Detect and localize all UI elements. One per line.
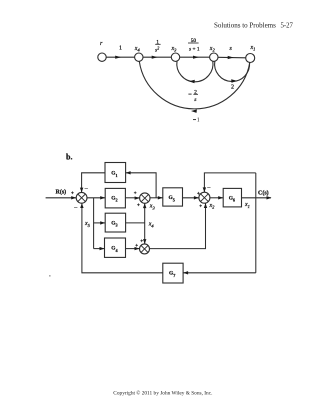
wire x2 to x1 (218, 56, 246, 59)
node x4 (135, 53, 143, 61)
wire S2 to G6 (210, 197, 223, 199)
arrowhead on arc x2 to x1 (pointing right) (231, 79, 237, 83)
wire top feedback to S2 top (204, 173, 255, 192)
wire tap to G4 input (94, 248, 105, 250)
arrowhead into G2 (100, 196, 105, 199)
wire x4 vertical from S3 bottom to S4 top (144, 203, 146, 244)
svg-text:Solutions to Problems: Solutions to Problems (214, 22, 276, 30)
branch gain label -1 (193, 119, 196, 121)
arc branch x1 to x4, gain -1 (139, 61, 250, 108)
arrowhead into G5 (158, 196, 163, 199)
X inside summing junction S4 (141, 245, 148, 252)
arc branch x2 to x1, gain 2 (215, 61, 250, 81)
svg-text:+: + (140, 240, 143, 245)
wire G5 to S2 (183, 197, 199, 199)
X inside summing junction S2 (201, 194, 209, 202)
svg-text:1: 1 (119, 46, 122, 52)
stray print speck (49, 275, 51, 277)
block G6 (223, 188, 241, 207)
summing junction S1 (76, 192, 87, 203)
svg-text:C(s): C(s) (258, 190, 269, 197)
svg-text:+: + (197, 192, 200, 197)
node x2 (210, 53, 218, 61)
X inside summing junction S1 (78, 194, 86, 202)
svg-text:x5: x5 (84, 221, 91, 228)
summing junction S3 (140, 193, 150, 203)
block G1 (105, 163, 126, 183)
svg-text:+: + (71, 191, 74, 196)
svg-text:x1: x1 (250, 45, 256, 52)
branch gain label -2/s (fraction) (188, 93, 191, 95)
wire R(s) input to S1 (46, 197, 77, 199)
wire G2 to S3 (125, 197, 139, 199)
arrowhead r to x4 (115, 56, 121, 59)
svg-text:x1: x1 (244, 202, 250, 209)
svg-text:x4: x4 (134, 46, 141, 53)
wire tap to G3 input (94, 222, 106, 224)
arrowhead x4 to x3 (152, 56, 158, 59)
svg-text:+: + (137, 204, 140, 209)
svg-text:5-27: 5-27 (281, 23, 294, 30)
arrowhead x2 to x1 (228, 56, 234, 59)
arrowhead into S3 left (135, 196, 140, 199)
X inside summing junction S3 (141, 194, 148, 201)
wire S4 output to S2 bottom (150, 203, 206, 248)
block G2 (105, 188, 125, 208)
arrowhead C(s) output (267, 196, 272, 199)
arrowhead into G1 right (feedback) (126, 171, 131, 174)
node x3 (171, 53, 179, 61)
block G7 (163, 263, 183, 283)
arrowhead into S4 top (143, 239, 146, 244)
block G5 (163, 188, 183, 206)
svg-text:x2: x2 (209, 46, 216, 53)
arrowhead into G3 (100, 221, 105, 224)
arrowhead into S1 bottom (80, 203, 83, 208)
arrowhead into S2 left (194, 196, 199, 199)
arrowhead into S2 bottom (204, 203, 207, 208)
svg-text:x3: x3 (149, 204, 156, 211)
arrowhead into S2 top (203, 187, 206, 192)
arrowhead into S1 top (80, 188, 83, 193)
arc branch x2 to x3, gain -2/s (177, 61, 213, 82)
wire G1 output to S1 top (82, 173, 105, 193)
svg-text:x4: x4 (148, 222, 155, 229)
summing junction S2 (199, 192, 210, 203)
node r (98, 53, 106, 61)
wire feedback vertical at right from top loop to G7 loop (255, 173, 257, 273)
svg-text:b.: b. (66, 152, 72, 161)
svg-text:2: 2 (231, 85, 234, 91)
arrowhead into G4 (100, 247, 105, 250)
arrowhead into G6 (218, 196, 223, 199)
wire x4 to x3 (143, 56, 171, 58)
arrowhead into G7 right (183, 271, 188, 274)
svg-text:+: + (134, 192, 137, 197)
wire x3 to x2 (180, 56, 210, 58)
wire r to x4 (106, 56, 134, 58)
arrowhead into S1 left (71, 196, 76, 199)
arrowhead into S3 bottom (143, 203, 146, 208)
svg-text:Copyright © 2011 by John Wil: Copyright © 2011 by John Wiley & Sons, I… (113, 389, 212, 396)
wire S3 to G5 (150, 197, 163, 199)
wire S1 to G2 (87, 197, 105, 199)
wire G7 output to S1 bottom (82, 203, 163, 273)
block G3 (105, 213, 125, 232)
arrowhead on arc x2 to x3 (pointing left) (189, 80, 195, 84)
svg-text:+: + (135, 244, 138, 249)
svg-text:x2: x2 (209, 203, 216, 210)
svg-text:s + 1: s + 1 (189, 47, 200, 53)
node x1 (246, 54, 255, 63)
wire x3 tap up to G1 input (126, 173, 157, 198)
wire tap x5 vertical down from S1 output line (93, 198, 95, 249)
svg-text:1: 1 (197, 117, 200, 123)
block G4 (105, 238, 126, 257)
svg-text:x3: x3 (171, 46, 178, 53)
arrowhead x3 to x2 (193, 56, 199, 59)
arrowhead on arc x1 to x4 (pointing left) (191, 109, 197, 113)
wire G6 output to C(s) (242, 197, 272, 199)
wire bottom feedback to G7 input (183, 272, 256, 274)
svg-text:+: + (199, 205, 202, 210)
summing junction S4 (140, 244, 150, 254)
arrowhead into S4 left (135, 247, 140, 250)
wire G3 output to x4 node (126, 222, 145, 224)
svg-text:s: s (194, 97, 196, 103)
wire G4 to S4 (126, 248, 140, 250)
svg-text:R(s): R(s) (56, 189, 67, 196)
